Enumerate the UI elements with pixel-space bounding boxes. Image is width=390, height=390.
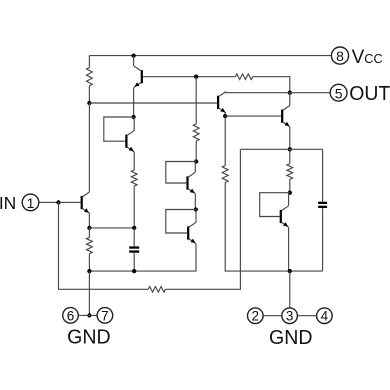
- resistor R7 (bias feedback, horizontal): [235, 74, 252, 80]
- junction Q1 emitter / C1 wire: [87, 226, 91, 230]
- wire box top to R5: [289, 149, 291, 163]
- junction pins 6-7: [87, 313, 91, 317]
- wire Q2 collector to Vcc rail: [133, 56, 135, 66]
- wire pin 1 to IN node: [39, 201, 58, 203]
- wire Q5 emitter down to box top: [289, 127, 291, 150]
- svg-text:6: 6: [67, 308, 75, 323]
- wire Q7 emitter to ground net A: [89, 244, 196, 271]
- wire Q3 collector stub: [133, 117, 135, 131]
- pin 7 (GND): [97, 308, 113, 324]
- wire C1 bottom lead: [133, 253, 135, 271]
- wire OUT node to pin 5: [290, 92, 330, 94]
- wire Q7 collector stub: [195, 210, 197, 223]
- junction ground net B / pin 3 wire: [288, 269, 292, 273]
- wire Q4 emitter to Q5 base: [225, 115, 281, 117]
- node IN junction: [56, 200, 60, 204]
- resistor R3 (diode string feed): [193, 124, 199, 141]
- resistor R5 (Q8 collector): [287, 164, 293, 180]
- wire box right edge upper: [322, 149, 324, 201]
- capacitor C1 (phase compensation): [129, 246, 139, 252]
- wire Q8 base-collector loop: [260, 193, 290, 217]
- svg-text:4: 4: [321, 309, 329, 324]
- pin 3 (GND): [282, 308, 298, 324]
- svg-text:5: 5: [335, 85, 343, 101]
- wire IN node to Q1 base: [59, 201, 81, 203]
- wire Q7 base-collector loop: [166, 210, 196, 234]
- transistor Q1 (input NPN): [81, 192, 90, 213]
- pin 5 (OUT): [330, 84, 347, 101]
- wire IN node down and right to R8: [59, 202, 149, 289]
- transistor Q4 (driver NPN): [217, 92, 226, 113]
- svg-text:GND: GND: [269, 326, 313, 349]
- wire R2 to C1 node: [133, 186, 135, 228]
- transistor Q3 (current-mirror diode): [125, 131, 134, 152]
- wire R4 to ground net B: [225, 183, 322, 272]
- resistor R4 (Q5 base bleed): [222, 166, 228, 183]
- resistor R6 (Q1 emitter): [87, 237, 93, 254]
- wire node A to Q3 base: [89, 102, 217, 104]
- wire Q3 emitter to R2: [133, 152, 135, 170]
- resistor R2 (Q3 emitter degeneration): [131, 170, 137, 186]
- capacitor C2 (output lag): [318, 202, 327, 208]
- wire C1 top lead: [133, 228, 135, 247]
- svg-text:1: 1: [27, 195, 35, 211]
- wire Q5 collector to OUT node: [289, 93, 291, 106]
- junction Vcc rail / Q2 collector: [131, 53, 135, 57]
- wire R8 to box left edge up to box top: [165, 149, 240, 289]
- junction Q4 emitter / Q5 base / R4: [223, 114, 227, 118]
- wire left rail upper segment: [88, 56, 90, 68]
- wire pin2 to pin3: [263, 315, 282, 317]
- node OUT junction: [288, 91, 292, 95]
- pin 8 (Vcc): [331, 47, 348, 64]
- wire Q1 emitter to C1 top node: [89, 227, 134, 229]
- wire Q2 base to R7: [143, 76, 235, 78]
- wire Q6 base-collector loop: [166, 162, 196, 184]
- wire Q4 collector stub: [224, 92, 226, 93]
- svg-text:7: 7: [101, 308, 109, 323]
- wire Q6 emitter to Q7 node: [194, 194, 196, 210]
- svg-text:3: 3: [286, 309, 294, 324]
- wire Q1 emitter down: [88, 213, 90, 228]
- wire R3 to Q5 collector node: [195, 141, 197, 162]
- wire down to R4: [224, 116, 226, 165]
- svg-text:2: 2: [252, 309, 260, 324]
- transistor Q2 (bias emitter-follower NPN): [134, 66, 143, 87]
- wire Q6 collector stub: [194, 162, 196, 173]
- wire box right edge lower: [322, 208, 324, 271]
- wire R7 to OUT node corner: [253, 77, 290, 93]
- junction Q8 collector / base loop: [288, 191, 292, 195]
- junction C1 / ground net A: [132, 269, 136, 273]
- wire middle column from bias node to R3: [195, 77, 197, 124]
- pin 2 (GND): [248, 308, 264, 324]
- svg-text:OUT: OUT: [349, 83, 390, 105]
- junction Q5 emitter / box top / R5: [288, 147, 292, 151]
- transistor Q8 (diode-connected sink): [280, 206, 289, 227]
- junction Q2 emitter / Q3 collector node: [131, 115, 135, 119]
- wire ground net A to pins 6-7: [88, 271, 90, 315]
- junction Q6 collector / base loop: [194, 159, 198, 163]
- wire ground net B to pin 3: [289, 271, 291, 308]
- pin 4 (GND): [317, 308, 333, 324]
- pin 6 (GND): [63, 308, 79, 324]
- pin 1 (IN): [22, 194, 39, 211]
- wire to R6: [88, 228, 90, 237]
- wire Q3 base-collector loop: [104, 117, 134, 141]
- wire Q4 emitter stub: [224, 113, 226, 116]
- wire R5 to Q8 collector node: [289, 179, 291, 192]
- junction left rail / ground net A: [87, 269, 91, 273]
- wire Q8 emitter to ground net B: [288, 227, 290, 271]
- wire Q3 collector to OUT node: [225, 92, 290, 94]
- wire Vcc rail (pin 8 to top-left corner): [89, 55, 331, 57]
- wire pin6-dot-pin7: [78, 314, 97, 316]
- transistor Q5 (output NPN): [281, 105, 290, 126]
- transistor Q7 (diode-connected): [187, 222, 196, 243]
- wire Q2 emitter down to mirror node: [133, 87, 135, 117]
- svg-text:IN: IN: [0, 193, 16, 213]
- junction Q7 collector / base loop: [194, 207, 198, 211]
- wire box top edge: [240, 148, 322, 150]
- svg-text:GND: GND: [67, 325, 111, 348]
- wire Q8 collector stub: [288, 193, 290, 206]
- node A junction (left rail / Q3 base wire): [87, 101, 91, 105]
- resistor R1 (left rail, Vcc to node A): [87, 68, 93, 86]
- junction bias wire / middle column: [194, 75, 198, 79]
- svg-text:8: 8: [336, 48, 344, 64]
- wire R1 bottom to node A: [88, 86, 90, 103]
- transistor Q6 (diode-connected): [186, 172, 195, 193]
- wire Q1 collector joins left rail: [88, 191, 90, 193]
- wire R6 to ground net A: [88, 254, 90, 271]
- resistor R8 (feedback): [148, 287, 165, 293]
- wire pin3 to pin4: [297, 315, 316, 317]
- wire left rail down to Q1 collector: [88, 103, 90, 192]
- junction C1 top: [132, 226, 136, 230]
